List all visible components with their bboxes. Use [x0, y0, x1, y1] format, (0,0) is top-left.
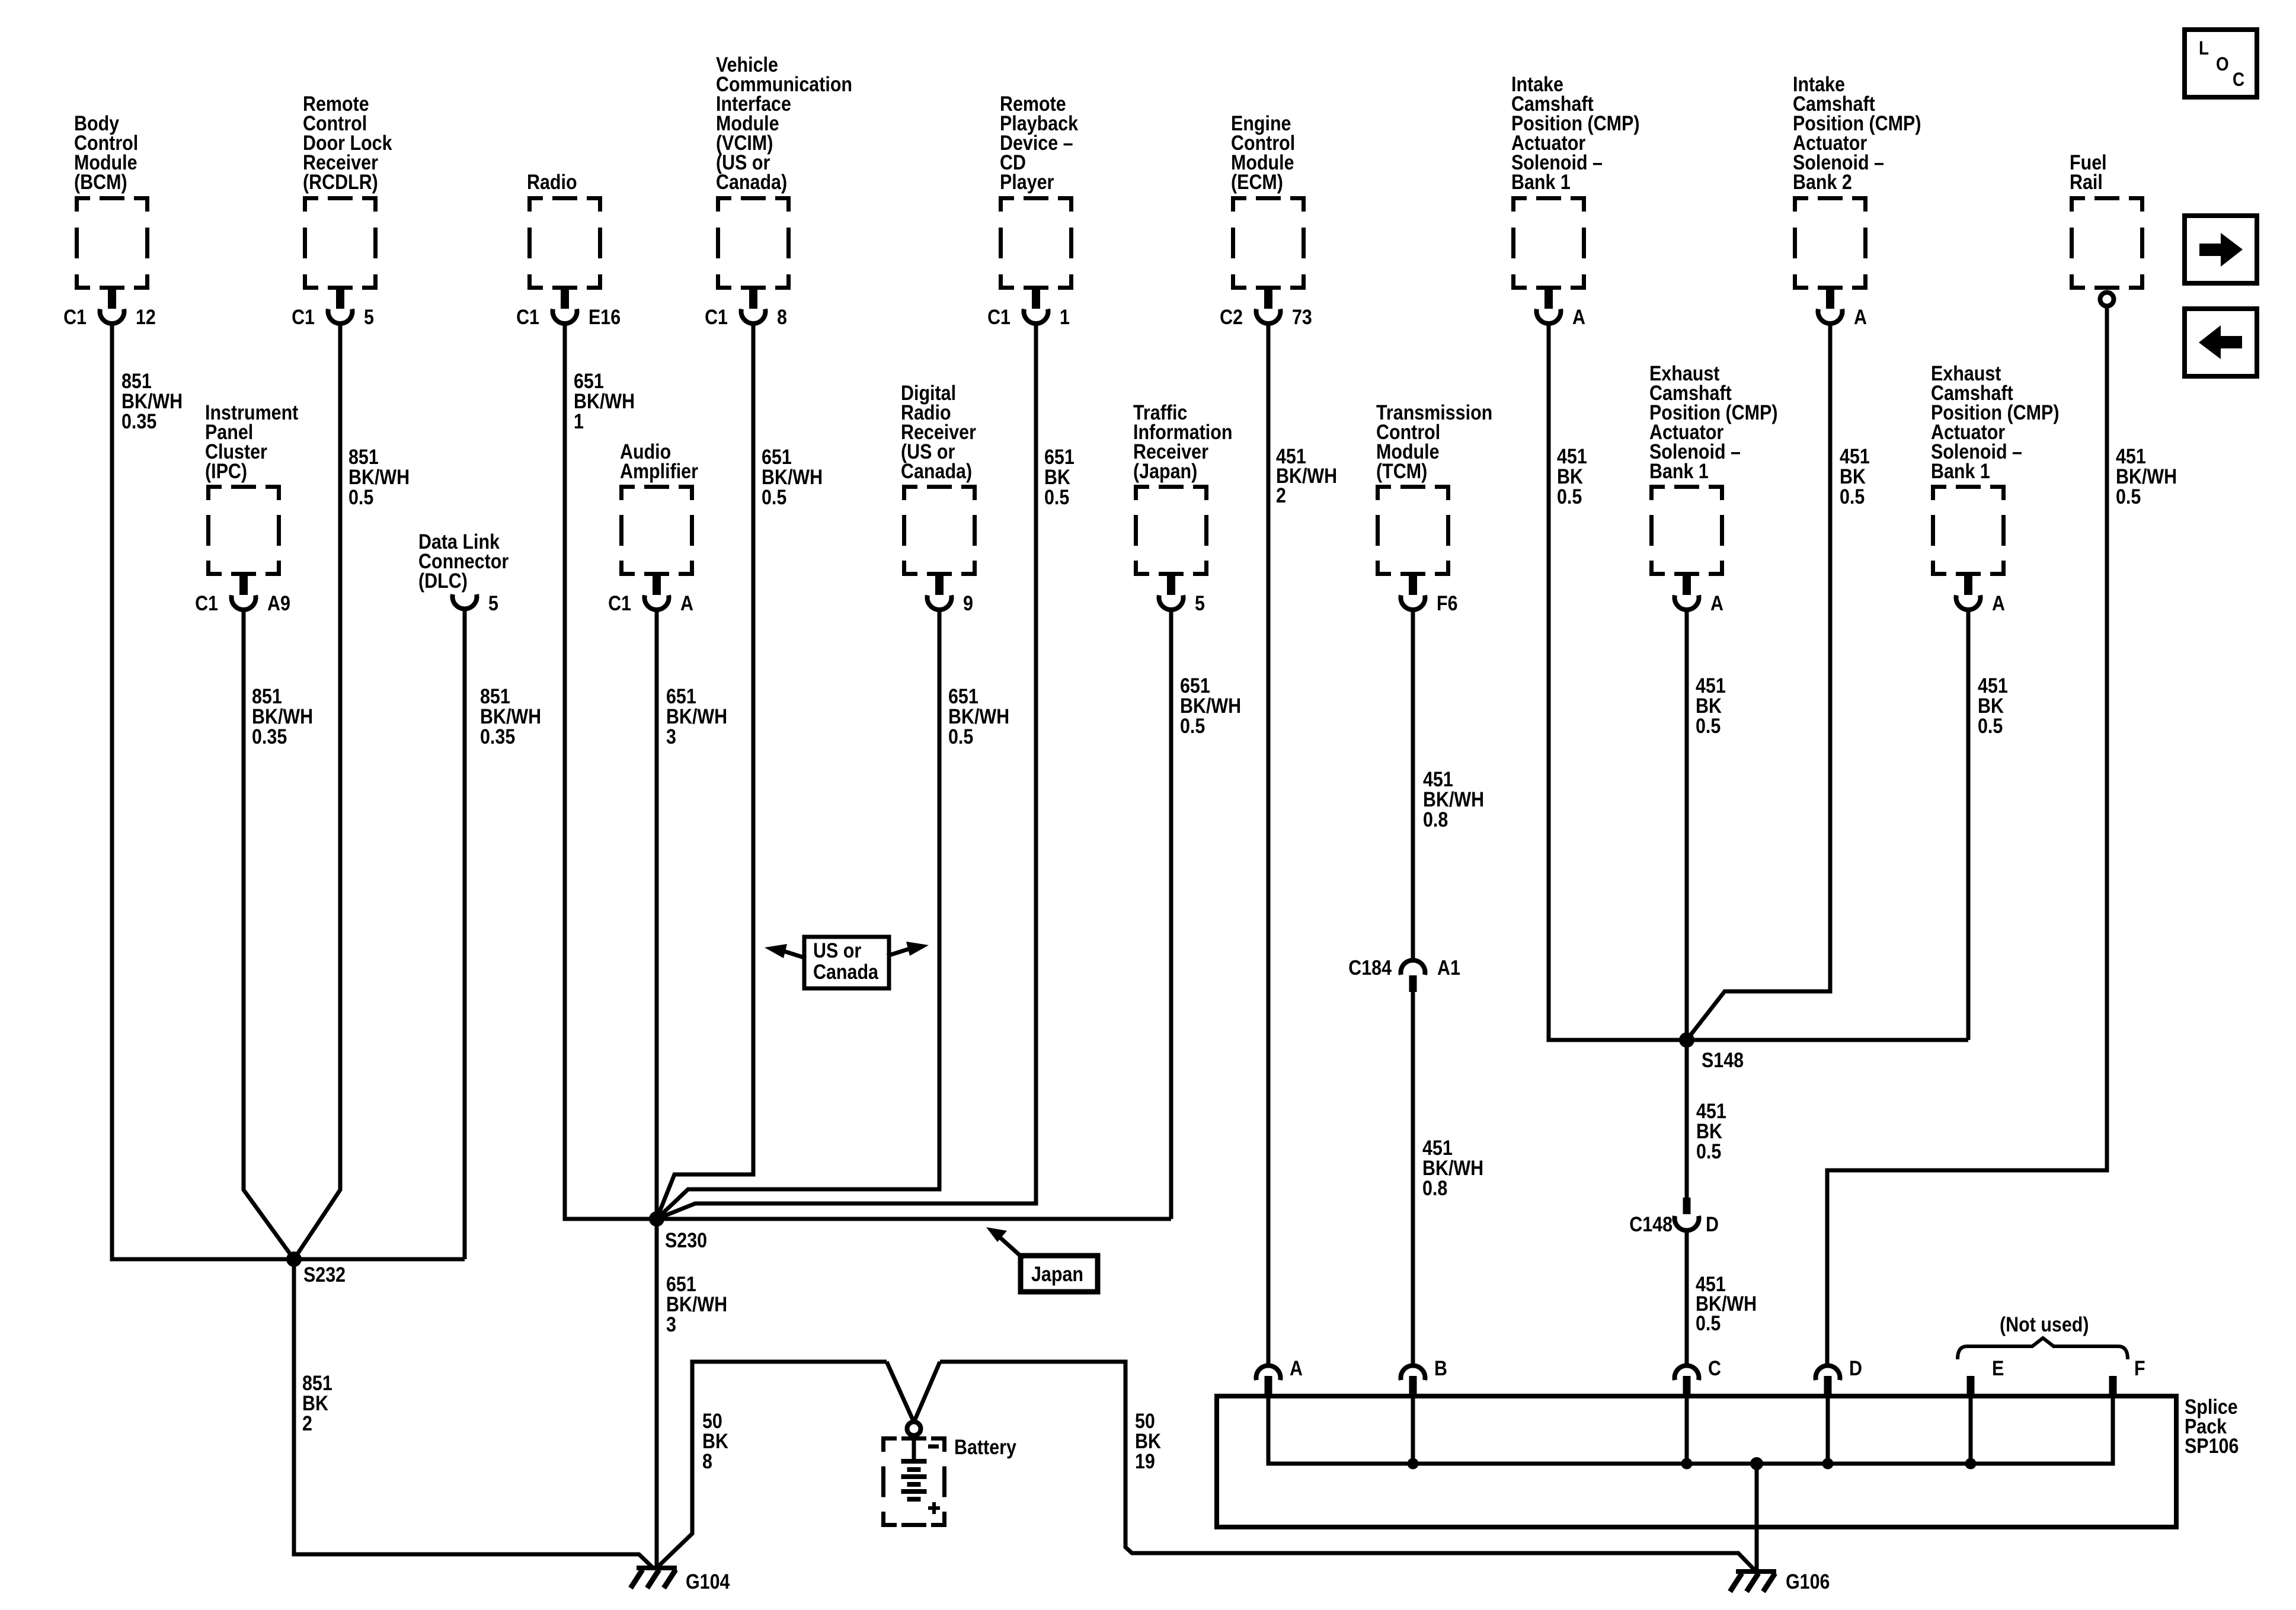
svg-text:3: 3 [666, 1313, 676, 1336]
wire 451 BK/WH 0.5 from C148 to splice pack pin C [1685, 1231, 1689, 1363]
wire from splice pack to ground G106 [1755, 1464, 1759, 1571]
splice S232 [286, 1251, 302, 1267]
svg-text:2: 2 [302, 1411, 312, 1435]
splice S230 [649, 1211, 664, 1227]
svg-text:B: B [1434, 1356, 1447, 1379]
splice pack pins A-F with labels [1256, 1356, 2145, 1397]
svg-text:C: C [1708, 1356, 1721, 1379]
svg-text:A: A [1854, 305, 1867, 328]
component Traffic Information Receiver (Japan) pin 5 [1133, 401, 1232, 614]
legend LOC box [2185, 30, 2257, 97]
svg-text:C148: C148 [1629, 1212, 1673, 1235]
component Exhaust Camshaft Position CMP Actuator Solenoid Bank 1 (second), pin A [1931, 361, 2059, 614]
splice pack SP106 box [1217, 1396, 2176, 1527]
wire 851 BK/WH 0.35 from DLC-5 to S232 [463, 611, 467, 1259]
svg-text:L: L [2199, 38, 2209, 59]
wire 451 BK 0.5 from S148 to connector C148 [1685, 1040, 1689, 1198]
callout box Japan with arrow to S230 bus [986, 1227, 1098, 1292]
component BCM (Body Control Module) with connector C1 pin 12 [63, 111, 156, 328]
svg-text:Bank 1: Bank 1 [1511, 170, 1571, 193]
component Exhaust Camshaft Position CMP Actuator Solenoid Bank 1, pin A [1649, 361, 1777, 614]
bus junction dots [1408, 1458, 1419, 1470]
legend left-arrow box [2185, 309, 2257, 376]
ground G104 [637, 1566, 677, 1570]
svg-text:A1: A1 [1437, 956, 1460, 979]
svg-text:0.8: 0.8 [1422, 1176, 1447, 1199]
svg-text:A: A [1710, 591, 1723, 614]
svg-text:(Japan): (Japan) [1133, 459, 1197, 482]
svg-text:A: A [1572, 305, 1585, 328]
svg-text:(RCDLR): (RCDLR) [303, 170, 378, 193]
svg-text:Radio: Radio [527, 170, 577, 193]
svg-text:C1: C1 [705, 305, 728, 328]
svg-text:5: 5 [364, 305, 374, 328]
wire 851 BK 2 from S232 to ground G104 [294, 1259, 652, 1567]
svg-text:S148: S148 [1702, 1048, 1744, 1071]
svg-text:9: 9 [963, 591, 973, 614]
svg-text:F: F [2134, 1356, 2145, 1379]
wire 651 BK/WH 3 from Audio Amplifier C1-A to S230 [655, 611, 659, 1219]
svg-text:(ECM): (ECM) [1231, 170, 1283, 193]
wire 451 BK 0.5 from Intake CMP Bank2 pin A to S148 [1687, 325, 1830, 1040]
svg-text:A9: A9 [267, 591, 290, 614]
component Audio Amplifier with connector C1 pin A [608, 440, 698, 614]
component RCDLR (Remote Control Door Lock Receiver) with connector C1 pin 5 [292, 92, 392, 328]
wire 851 BK/WH 0.35 from BCM C1-12 down to S232 horizontal [112, 325, 465, 1259]
splice pack internal bus [1268, 1397, 2113, 1464]
wire 651 BK/WH 0.5 from VCIM C1-8 to S230 [657, 325, 753, 1219]
svg-text:A: A [1290, 1356, 1303, 1379]
svg-text:S232: S232 [303, 1263, 346, 1286]
svg-text:F6: F6 [1437, 591, 1458, 614]
svg-text:A: A [680, 591, 693, 614]
svg-text:Bank 1: Bank 1 [1931, 459, 1990, 482]
svg-text:C1: C1 [63, 305, 87, 328]
svg-text:3: 3 [666, 725, 676, 748]
svg-text:0.5: 0.5 [1696, 714, 1721, 737]
svg-text:Player: Player [1000, 170, 1054, 193]
svg-text:12: 12 [136, 305, 156, 328]
svg-text:0.35: 0.35 [252, 725, 287, 748]
component Intake Camshaft Position CMP Actuator Solenoid Bank 1, pin A [1511, 72, 1639, 328]
svg-text:19: 19 [1135, 1449, 1155, 1473]
svg-text:Bank 2: Bank 2 [1793, 170, 1852, 193]
wire 651 BK 0.5 from CD Player C1-1 to S230 [657, 325, 1036, 1219]
svg-text:0.5: 0.5 [1696, 1140, 1721, 1163]
svg-text:0.5: 0.5 [1978, 714, 2003, 737]
svg-text:8: 8 [777, 305, 787, 328]
svg-text:0.8: 0.8 [1423, 808, 1448, 831]
svg-text:5: 5 [488, 591, 498, 614]
svg-text:C184: C184 [1348, 956, 1392, 979]
component Fuel Rail with ring terminal [2070, 151, 2142, 306]
svg-text:Japan: Japan [1031, 1262, 1083, 1285]
svg-text:0.35: 0.35 [480, 725, 515, 748]
battery positive side wire 50 BK 19 to ground G106 [940, 1362, 1754, 1570]
svg-text:Battery: Battery [954, 1435, 1017, 1458]
wire 451 BK 0.5 from Exhaust CMP Bank1 (second) pin A down to S148 horizontal [1966, 611, 1971, 1040]
svg-text:Canada: Canada [813, 960, 879, 983]
svg-text:0.5: 0.5 [1044, 485, 1069, 508]
svg-text:0.5: 0.5 [948, 725, 973, 748]
svg-text:0.5: 0.5 [2116, 485, 2141, 508]
wire 451 BK/WH 2 from ECM C2-73 to splice pack pin A [1267, 325, 1271, 1363]
svg-text:0.5: 0.5 [348, 485, 373, 508]
svg-text:C: C [2233, 69, 2244, 90]
svg-text:(TCM): (TCM) [1376, 459, 1427, 482]
component Remote Playback Device - CD Player with connector C1 pin 1 [987, 92, 1079, 328]
svg-text:C2: C2 [1220, 305, 1243, 328]
svg-text:E: E [1992, 1356, 2004, 1379]
wire 451 BK/WH 0.8 from C184 to splice pack pin B [1411, 992, 1415, 1363]
component Radio with connector C1 pin E16 [516, 170, 621, 328]
svg-text:C1: C1 [987, 305, 1011, 328]
battery terminal V wires [887, 1362, 914, 1422]
svg-text:5: 5 [1195, 591, 1205, 614]
svg-text:C1: C1 [292, 305, 315, 328]
component Intake Camshaft Position CMP Actuator Solenoid Bank 2, pin A [1793, 72, 1921, 328]
svg-text:E16: E16 [589, 305, 621, 328]
svg-text:0.35: 0.35 [121, 409, 156, 433]
svg-text:0.5: 0.5 [1696, 1311, 1721, 1334]
svg-text:D: D [1706, 1212, 1719, 1235]
legend right-arrow box [2185, 216, 2257, 283]
svg-text:G104: G104 [686, 1570, 730, 1593]
svg-text:0.5: 0.5 [1557, 485, 1582, 508]
inline connector C148 pin D [1629, 1198, 1719, 1235]
svg-text:Amplifier: Amplifier [620, 459, 698, 482]
svg-text:C1: C1 [195, 591, 218, 614]
svg-text:(IPC): (IPC) [205, 459, 247, 482]
svg-text:US or: US or [813, 939, 861, 962]
svg-text:8: 8 [702, 1449, 712, 1473]
svg-text:G106: G106 [1786, 1570, 1830, 1593]
svg-text:1: 1 [574, 409, 584, 433]
battery negative terminal wire 50 BK 8 to ground G104 [658, 1362, 887, 1567]
battery symbol with dashed box, plates, polarity and label [884, 1422, 1017, 1525]
ground G106 [1736, 1569, 1776, 1574]
wire 451 BK/WH 0.8 from TCM F6 to connector C184 [1411, 611, 1415, 959]
svg-text:Canada): Canada) [716, 170, 787, 193]
svg-text:O: O [2216, 54, 2229, 75]
svg-text:(BCM): (BCM) [74, 170, 127, 193]
wire 851 BK/WH 0.35 from IPC C1-A9 to S232 [244, 611, 294, 1259]
component VCIM (Vehicle Communication Interface Module, US or Canada) with connector C1 pin 8 [705, 53, 852, 328]
svg-text:1: 1 [1060, 305, 1070, 328]
svg-text:D: D [1849, 1356, 1862, 1379]
svg-text:0.5: 0.5 [1180, 714, 1205, 737]
wire 651 BK/WH 0.5 from Traffic Information Receiver pin 5 to S230 bus [1169, 611, 1173, 1219]
svg-text:0.5: 0.5 [762, 485, 786, 508]
svg-text:73: 73 [1292, 305, 1312, 328]
component ECM (Engine Control Module) with connector C2 pin 73 [1220, 111, 1312, 328]
wire 651 BK/WH 0.5 from Digital Radio Receiver pin 9 to S230 [657, 611, 939, 1219]
component TCM (Transmission Control Module) pin F6 [1376, 401, 1492, 614]
component Digital Radio Receiver (US or Canada) pin 9 [901, 381, 976, 614]
component DLC (Data Link Connector) pin 5 [418, 530, 509, 614]
callout box US or Canada with arrows [765, 937, 929, 988]
wire 451 BK 0.5 from Intake CMP Bank1 pin A to S148 [1549, 325, 1968, 1040]
wire 451 BK 0.5 from Exhaust CMP Bank1 pin A down to S148 [1685, 611, 1689, 1040]
svg-text:Bank 1: Bank 1 [1649, 459, 1709, 482]
svg-text:A: A [1992, 591, 2005, 614]
svg-text:(Not used): (Not used) [2000, 1313, 2089, 1336]
svg-text:Canada): Canada) [901, 459, 972, 482]
splice S148 [1679, 1032, 1694, 1048]
svg-text:S230: S230 [665, 1228, 707, 1251]
wire 651 BK/WH 1 from Radio C1-E16 to S230 bus [565, 325, 1171, 1219]
wire 651 BK/WH 3 from S230 to ground G104 [655, 1219, 659, 1568]
svg-text:Rail: Rail [2070, 170, 2103, 193]
inline connector C184 pin A1 [1348, 956, 1460, 992]
svg-text:0.5: 0.5 [1840, 485, 1865, 508]
svg-text:(DLC): (DLC) [418, 569, 468, 592]
svg-text:2: 2 [1276, 484, 1286, 507]
wire 851 BK/WH 0.5 from RCDLR C1-5 to S232 [294, 325, 340, 1259]
component IPC (Instrument Panel Cluster) with connector C1 pin A9 [195, 401, 298, 614]
svg-text:SP106: SP106 [2185, 1434, 2239, 1457]
svg-text:C1: C1 [608, 591, 631, 614]
wire 451 BK/WH 0.5 from Fuel Rail to splice pack pin D [1827, 306, 2107, 1363]
svg-text:C1: C1 [516, 305, 539, 328]
